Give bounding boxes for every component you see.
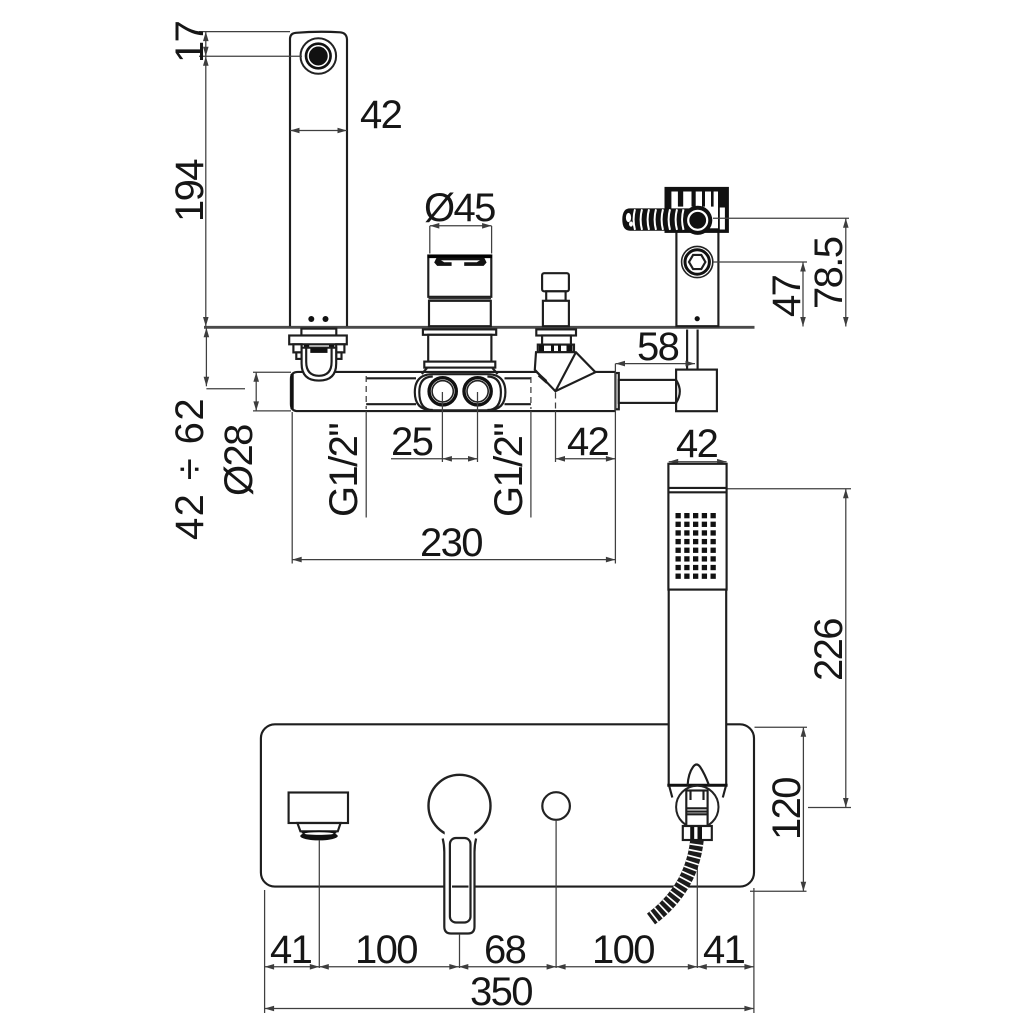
dim 230: [292, 521, 615, 565]
dim 226 ext top: [728, 488, 852, 490]
holder cup marks front: [669, 786, 726, 797]
G1/2 port lines left: [366, 378, 416, 404]
holder hose (side view): [622, 208, 692, 230]
svg-text:25: 25: [391, 420, 433, 464]
holder dot: [695, 316, 700, 321]
hand shower spray grid: [676, 513, 716, 579]
dim 226: [807, 489, 851, 808]
ball nut: [686, 791, 707, 827]
inlet boss (stadium): [415, 374, 506, 410]
hand shower handle: [667, 590, 727, 786]
ext line G1/2 right: [530, 377, 532, 518]
svg-text:78.5: 78.5: [807, 237, 851, 309]
dim 17: [168, 21, 302, 63]
shower ball joint: [676, 786, 718, 828]
diverter cone: [535, 352, 596, 391]
hose nut: [683, 826, 712, 840]
dim 42 handshower: [669, 422, 727, 466]
dim 350: [265, 970, 754, 1014]
dim 194: [168, 56, 212, 326]
pipe to elbow: [619, 380, 677, 403]
holder cup: [667, 189, 727, 230]
shower tip cone: [688, 765, 709, 786]
ext handle axis: [459, 934, 461, 968]
riser pipes: [687, 330, 698, 370]
bottom plate: [261, 724, 754, 886]
svg-text:G1/2": G1/2": [322, 424, 366, 517]
svg-text:47: 47: [765, 275, 809, 317]
svg-text:100: 100: [355, 928, 417, 972]
hose front: [651, 840, 697, 919]
dim 42 spout width: [290, 93, 402, 137]
bottom ext lines: [265, 888, 754, 1013]
cartridge below wall: body: [428, 335, 491, 362]
dim 120: [750, 727, 809, 891]
inlet circle left: [429, 378, 456, 405]
svg-text:120: 120: [765, 778, 809, 840]
cartridge below wall: flange: [423, 329, 496, 334]
bar right end cap: [615, 373, 618, 409]
svg-text:42: 42: [567, 420, 609, 464]
dim 78.5: [713, 218, 851, 326]
ext trim axis: [555, 820, 557, 968]
ext line bar left end: [291, 412, 293, 564]
dim 42÷62: [168, 328, 245, 540]
svg-text:194: 194: [168, 159, 212, 222]
svg-text:42: 42: [360, 93, 402, 137]
svg-text:68: 68: [484, 928, 526, 972]
ext lines inlet centers: [442, 392, 477, 462]
dim 25: [391, 420, 478, 464]
holder hex screw: [682, 246, 713, 277]
inlet circle right: [464, 378, 491, 405]
dim chain 41/100/68/100/41: [265, 928, 754, 972]
plate handle front: [429, 775, 491, 934]
body bar: [291, 372, 616, 411]
svg-text:58: 58: [637, 325, 679, 369]
svg-text:230: 230: [420, 521, 482, 565]
spout body (side view): [290, 32, 347, 326]
ext line G1/2 left: [365, 376, 367, 518]
cartridge lower box: [429, 301, 491, 326]
cartridge ring band: [429, 298, 492, 300]
diverter pull knob: [542, 273, 569, 326]
cartridge upper box (handle): [428, 256, 493, 297]
G1/2 port lines right: [505, 378, 531, 404]
ext line diverter axis: [555, 393, 557, 463]
diverter knurl band: [538, 345, 574, 353]
shower holder body: [676, 206, 718, 326]
dim 58: [616, 325, 696, 369]
ext handshower axis: [696, 843, 698, 968]
wall line: [204, 326, 755, 329]
ext spout axis: [318, 840, 320, 968]
svg-text:Ø45: Ø45: [424, 186, 495, 230]
dim 47: [713, 262, 809, 327]
hand shower head: [668, 464, 726, 590]
spout screws: [308, 316, 314, 322]
svg-text:100: 100: [592, 928, 654, 972]
svg-text:350: 350: [470, 970, 532, 1014]
dim 226 ext bottom: [808, 807, 851, 809]
hose connection ring: [683, 206, 712, 235]
spout connection below wall: [289, 329, 347, 381]
svg-text:226: 226: [807, 619, 851, 681]
elbow block: [676, 370, 717, 412]
svg-text:Ø28: Ø28: [217, 425, 261, 496]
spout outlet circle: [301, 38, 337, 74]
cartridge clamp band: [422, 362, 498, 374]
dim 42 diverter: [556, 420, 616, 464]
svg-text:G1/2": G1/2": [487, 424, 531, 517]
dim Ø45: [424, 186, 495, 254]
svg-text:41: 41: [270, 928, 312, 972]
dim Ø28: [217, 372, 291, 496]
diverter neck below wall: [542, 336, 571, 345]
plate spout front: [289, 793, 348, 841]
svg-text:41: 41: [703, 928, 745, 972]
svg-text:42: 42: [676, 422, 718, 466]
diverter flange below wall: [536, 329, 576, 335]
ext line bar right end: [614, 364, 616, 564]
plate diverter trim: [542, 792, 570, 820]
